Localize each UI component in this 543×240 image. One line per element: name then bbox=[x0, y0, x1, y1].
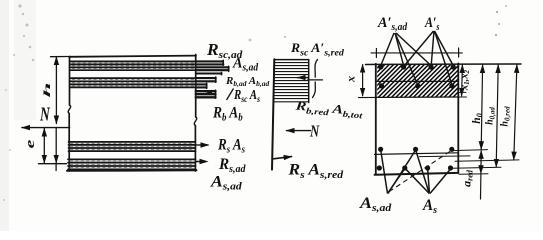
svg-text:Rb,red Ab,tot: Rb,red Ab,tot bbox=[294, 99, 364, 121]
svg-text:A′s: A′s bbox=[424, 14, 440, 32]
svg-text:Rb Ab: Rb Ab bbox=[212, 105, 243, 124]
svg-text:A′s,ad: A′s,ad bbox=[377, 15, 407, 33]
svg-text:h0,red: h0,red bbox=[500, 106, 512, 127]
svg-text:As,ad: As,ad bbox=[232, 55, 258, 73]
svg-text:As,ad: As,ad bbox=[359, 194, 392, 214]
svg-text:h0: h0 bbox=[471, 113, 484, 123]
svg-text:Rs As: Rs As bbox=[217, 136, 245, 155]
svg-text:Rsc A′s,red: Rsc A′s,red bbox=[290, 40, 344, 58]
svg-text:e: e bbox=[22, 140, 37, 149]
svg-text:h: h bbox=[42, 82, 53, 97]
svg-text:ared: ared bbox=[460, 169, 475, 187]
svg-text:x1,x2: x1,x2 bbox=[460, 69, 472, 91]
svg-text:Rs As,red: Rs As,red bbox=[287, 160, 343, 180]
svg-text:As,ad: As,ad bbox=[210, 172, 242, 192]
svg-text:N: N bbox=[39, 103, 50, 125]
svg-text:Rsc As: Rsc As bbox=[233, 87, 260, 104]
svg-text:As: As bbox=[422, 197, 437, 216]
svg-text:h0,ad: h0,ad bbox=[485, 107, 497, 125]
svg-text:N: N bbox=[309, 123, 320, 141]
svg-text:x: x bbox=[344, 76, 358, 83]
